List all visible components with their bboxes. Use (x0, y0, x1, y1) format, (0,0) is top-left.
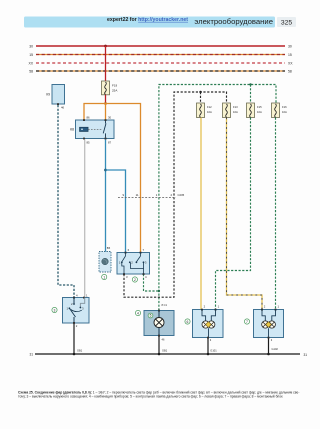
svg-text:1: 1 (218, 304, 220, 308)
svg-text:GB1: GB1 (162, 349, 168, 353)
svg-text:F19: F19 (112, 84, 118, 88)
bus X3 (36, 62, 285, 64)
fuse F15 (247, 103, 255, 118)
svg-text:46: 46 (162, 338, 165, 342)
svg-text:G102: G102 (272, 347, 279, 351)
header bar (24, 17, 275, 28)
bus 15 (36, 54, 285, 56)
svg-text:58: 58 (29, 70, 33, 74)
svg-text:10A: 10A (282, 110, 287, 114)
svg-text:Б5: Б5 (107, 246, 111, 250)
svg-text:325: 325 (281, 20, 293, 27)
svg-text:1: 1 (86, 293, 88, 297)
svg-text:ХХ: ХХ (288, 62, 293, 66)
wire teal dashed high-beam bus (159, 85, 276, 311)
svg-text:1: 1 (278, 304, 280, 308)
wire teal drop to fuse3 (250, 85, 252, 104)
svg-text:10A: 10A (233, 110, 238, 114)
lamp high beam indicator (158, 311, 160, 318)
svg-text:6: 6 (128, 248, 130, 252)
svg-text:15: 15 (288, 53, 292, 57)
svg-text:том); 3 – выключатель наружног: том); 3 – выключатель наружного освещени… (18, 394, 283, 398)
wire grey relay85 to box3 (84, 139, 86, 297)
left headlamp box 6 (193, 310, 224, 338)
svg-text:46: 46 (61, 106, 65, 110)
node orange junction (104, 102, 107, 105)
svg-text:G101: G101 (210, 349, 217, 353)
bus 30 (36, 45, 285, 47)
svg-text:К8: К8 (70, 127, 74, 131)
wire black right headlamp ground (268, 339, 270, 355)
wire blue relay87 down (105, 139, 107, 251)
svg-text:10A: 10A (257, 110, 262, 114)
svg-text:электрооборудование: электрооборудование (194, 17, 273, 26)
svg-text:15: 15 (29, 53, 33, 57)
svg-text:expert22 for http://youtracker: expert22 for http://youtracker.net (107, 17, 188, 23)
svg-text:4: 4 (137, 311, 139, 315)
wire black left headlamp ground (207, 339, 209, 355)
svg-text:11: 11 (136, 193, 139, 197)
svg-text:2: 2 (134, 278, 136, 282)
right headlamp box 7 (254, 310, 284, 338)
node 3 callout (52, 307, 57, 312)
fuse F16 (272, 103, 280, 118)
svg-text:86: 86 (87, 116, 91, 120)
svg-text:31: 31 (304, 353, 308, 357)
wire orange horizontal + branches (84, 104, 141, 253)
svg-text:1: 1 (103, 275, 105, 279)
relay coil (80, 127, 89, 131)
lamp twin filament left (202, 321, 209, 328)
fuse F12 (197, 103, 205, 118)
svg-text:31: 31 (29, 353, 33, 357)
wire teal F15 to left headlamp high (216, 118, 251, 310)
svg-text:5: 5 (150, 314, 152, 318)
node 2 callout (132, 277, 137, 282)
svg-text:30: 30 (108, 116, 112, 120)
svg-text:9: 9 (122, 193, 124, 197)
node black junction (199, 91, 201, 93)
wire black box3 to ground (73, 324, 75, 355)
wire blue branch to switch pin6 (106, 170, 126, 253)
svg-text:58: 58 (288, 70, 292, 74)
fuse F13 (223, 103, 231, 118)
svg-text:3: 3 (54, 308, 56, 312)
node bus30 junction (104, 45, 107, 48)
svg-text:F15: F15 (257, 105, 262, 109)
page number box (277, 17, 296, 27)
svg-text:2: 2 (76, 324, 78, 328)
lamp twin filament right (262, 321, 269, 328)
svg-text:7: 7 (246, 320, 248, 324)
node blue junction (104, 169, 107, 172)
node teal low junction (158, 290, 160, 292)
svg-text:8 С1: 8 С1 (162, 303, 168, 307)
svg-text:30: 30 (288, 45, 292, 49)
box3 internal (80, 298, 84, 308)
svg-text:F16: F16 (282, 105, 287, 109)
switch contacts (125, 253, 127, 257)
node teal top junction (249, 83, 251, 85)
bus 58 (36, 70, 285, 72)
wire red from bus 30 to fuse F19 (105, 46, 107, 82)
svg-text:6: 6 (187, 320, 189, 324)
svg-text:85: 85 (87, 141, 91, 145)
wire orange to relay pin 30 (105, 104, 107, 121)
svg-text:30: 30 (29, 45, 33, 49)
wire yellow F12 to left headlamp (200, 118, 202, 310)
svg-text:1: 1 (156, 193, 158, 197)
node 5 callout (148, 313, 153, 318)
svg-text:2: 2 (264, 304, 266, 308)
svg-text:4: 4 (76, 293, 78, 297)
node 6 callout (185, 319, 190, 324)
relay K8 (76, 120, 115, 139)
svg-text:3: 3 (126, 275, 128, 279)
svg-text:F13: F13 (233, 105, 238, 109)
wire yellow-black F13 to right headlamp (227, 118, 263, 310)
switch box 2 (117, 253, 150, 275)
svg-text:ХХ: ХХ (28, 62, 33, 66)
svg-text:2: 2 (170, 193, 172, 197)
svg-text:4: 4 (145, 275, 147, 279)
svg-text:C205: C205 (178, 193, 185, 197)
node 4 callout (135, 310, 140, 315)
svg-text:7: 7 (143, 248, 145, 252)
K9 box (52, 85, 65, 105)
wire teal dashed K9 to box3 pin4 (58, 105, 74, 298)
wire black dashed drop to F11 (200, 92, 202, 103)
wire red fuse to orange junction (105, 95, 107, 104)
wire teal branch from switch pin4 (144, 274, 159, 291)
svg-text:2: 2 (204, 304, 206, 308)
svg-text:10A: 10A (207, 110, 212, 114)
svg-text:3: 3 (271, 338, 273, 342)
wire black dashed F11 F12 feed (124, 92, 227, 297)
fuse F19 (102, 81, 110, 95)
light switch box 3 (63, 298, 90, 324)
wire black cluster to ground (158, 337, 160, 355)
svg-text:87: 87 (108, 141, 112, 145)
svg-text:25A: 25A (112, 89, 117, 93)
wire teal F16 to right headlamp high (275, 118, 277, 310)
svg-text:К9: К9 (46, 92, 50, 96)
svg-text:GB1: GB1 (77, 349, 83, 353)
ground bus 31 (35, 353, 300, 355)
svg-text:3: 3 (210, 338, 212, 342)
connector C205 (118, 197, 176, 199)
svg-text:F12: F12 (207, 105, 212, 109)
node 7 callout (244, 319, 249, 324)
node 1 callout (102, 274, 107, 279)
